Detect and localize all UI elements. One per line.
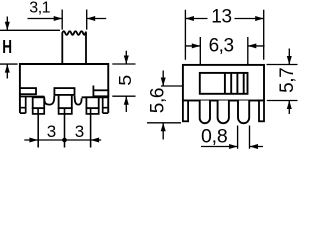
svg-text:H: H — [2, 37, 12, 57]
dimension 3,1 arrow lines — [28, 18, 107, 20]
terminal T2 flange bar — [54, 88, 74, 95]
svg-text:3: 3 — [47, 122, 56, 141]
arrowhead 5,7 top (points down) — [287, 56, 292, 65]
arrowhead 5,6 top (points down) — [161, 78, 166, 87]
terminal T2 contact body — [59, 95, 72, 108]
terminal T3 flange connector — [92, 86, 94, 91]
dimension 6,3 extension lines — [200, 37, 248, 65]
switch body (side view) — [183, 65, 264, 101]
arrowhead 5 bottom (points up) — [124, 96, 129, 105]
arrowhead 3 3 right (points left) — [91, 138, 100, 143]
contact loop between T1 and T2 — [44, 96, 54, 105]
terminal T2 crimp strip — [59, 108, 72, 114]
dimension 3 3 line — [24, 139, 101, 141]
arrowhead 3 3 left (points right) — [29, 138, 38, 143]
terminal T2 pin / extension line — [64, 114, 66, 148]
terminal T1 flange bar — [20, 88, 36, 94]
dimension 6,3 arrow lines — [186, 45, 265, 47]
svg-text:3: 3 — [75, 122, 84, 141]
terminal T1 contact body — [33, 97, 45, 108]
arrowhead 5,7 bottom (points up) — [287, 101, 292, 110]
arrowhead 3,1 right (points left) — [87, 16, 96, 21]
dimension 0,8 arrow lines — [201, 146, 263, 148]
arrowhead 6,3 right (points left) — [248, 43, 256, 48]
dimension H arrow lines — [6, 17, 8, 79]
dimension 0,8 extension lines — [238, 126, 250, 149]
arrowhead 0,8 right (points left) — [250, 144, 259, 149]
dot junction 3 3 center — [62, 138, 67, 143]
svg-text:5: 5 — [115, 75, 135, 86]
svg-text:5,7: 5,7 — [277, 68, 298, 93]
terminal T3 flange bar — [93, 90, 108, 96]
dimension 5 tick lines — [112, 64, 135, 96]
dimension 5,7 extension lines — [267, 65, 298, 101]
dimension 5 arrow lines — [125, 51, 127, 112]
knob (front view, serrated actuator) — [62, 31, 86, 64]
slider slot (side view) — [200, 73, 248, 94]
arrowhead 0,8 left (points right) — [229, 144, 238, 149]
dimension 5,6 extension lines — [147, 86, 182, 123]
side tab left — [183, 101, 188, 122]
dimension 13 extension lines — [185, 10, 263, 60]
pin P1 (round bottom) — [200, 101, 210, 124]
right ledge — [82, 96, 109, 98]
contact loop between T2 and T3 — [75, 96, 82, 105]
terminal T1 crimp strip — [33, 108, 45, 114]
dimension 13 line — [185, 18, 263, 20]
arrowhead 5 top (points down) — [124, 56, 129, 65]
svg-text:5,6: 5,6 — [147, 88, 168, 113]
dimension 5,7 arrow lines — [288, 49, 290, 115]
terminal T3 crimp strip — [86, 108, 98, 114]
left ledge — [20, 96, 44, 98]
arrowhead 13 left (points left) — [185, 16, 194, 21]
svg-text:0,8: 0,8 — [201, 125, 228, 147]
slider knob serrations (side view) — [225, 73, 244, 94]
arrowhead 13 right (points right) — [255, 16, 264, 21]
pin P2 (round bottom) — [218, 101, 229, 124]
svg-text:6,3: 6,3 — [209, 35, 234, 56]
arrowhead H top (points down) — [5, 22, 10, 31]
left mounting foot — [20, 97, 26, 114]
side tab right — [259, 101, 264, 122]
switch body (front view): left wall, top, right wall — [20, 64, 108, 113]
arrowhead 3,1 left (points right) — [54, 16, 63, 21]
terminal T3 pin / extension line — [90, 114, 92, 148]
arrowhead 6,3 left (points right) — [192, 43, 201, 48]
dimension H extension lines — [0, 30, 60, 64]
right mounting foot — [103, 97, 109, 113]
dimension 5,6 arrow lines — [162, 71, 164, 140]
arrowhead 5,6 bottom (points up) — [161, 123, 166, 132]
svg-text:13: 13 — [211, 6, 232, 27]
dimension 3,1 extension lines — [62, 10, 86, 30]
terminal T1 pin / extension line — [37, 114, 39, 148]
terminal T3 contact body — [86, 97, 98, 108]
arrowhead H bottom (points up) — [5, 64, 10, 73]
pin P3 (round bottom) — [238, 101, 249, 124]
svg-text:3,1: 3,1 — [29, 0, 50, 16]
